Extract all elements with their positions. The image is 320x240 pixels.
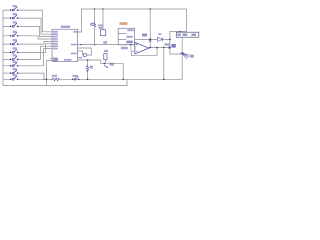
relay top pin (181, 31, 183, 34)
IC U1 label above (61, 26, 71, 28)
IC U1 body (52, 29, 77, 61)
switch SW5 (10, 41, 18, 45)
wire row10 / bottom analog rail (3, 78, 182, 80)
transistor Q1 (181, 53, 183, 55)
junction dot rail x103 (102, 8, 103, 9)
wire row5 (3, 41, 52, 44)
wire row6 (3, 44, 52, 53)
wire row9 (3, 73, 44, 79)
switch SW8 (10, 62, 18, 66)
box U2 middle (DAC) (118, 28, 134, 45)
U2 inner pin stubs (118, 34, 126, 40)
switch SW6 (10, 49, 18, 53)
wire XTAL nest 2 (78, 51, 84, 55)
junction dot row9 joins rail (43, 79, 44, 80)
switch SW3 (10, 23, 18, 27)
diode/resistor R-b on bottom rail (72, 76, 79, 80)
wire bottom border net (3, 79, 127, 85)
wire row4 (3, 36, 52, 39)
wire row8 (3, 49, 52, 66)
output arrow + flag (169, 46, 171, 49)
output down to rail (163, 48, 165, 80)
diode D1 (158, 37, 163, 41)
box2 bottom pin drop (130, 45, 132, 51)
orange script text (120, 22, 128, 25)
switch SW4 (10, 32, 18, 36)
wire left common bus (2, 10, 4, 86)
junction dot on rail (46, 79, 48, 81)
X1 labels above (98, 25, 103, 27)
X1 label below (103, 41, 107, 43)
crystal/box X1 top (102, 9, 104, 30)
output wire (149, 47, 170, 49)
wire row7 (3, 46, 52, 59)
op-amp label (127, 41, 133, 43)
relay/load box (176, 32, 199, 37)
resistor R pullup (box style) on x=94.6 (94, 9, 96, 45)
IC U1 right/bottom pin labels (53, 31, 82, 61)
resistor chain R-a on bottom rail (51, 78, 60, 81)
switch SW2 (10, 15, 18, 19)
vertical resistor R-c at x87.6 (78, 60, 124, 79)
rail dropper x150 (149, 9, 151, 48)
U2 right side labels (126, 29, 133, 43)
IC U1 pin9 stub (50, 57, 52, 59)
wire DAC output to op-amp + (78, 44, 135, 46)
capacitor/crystal blob (83, 54, 86, 57)
switch SW7 (10, 56, 18, 60)
switch SW1 (10, 7, 18, 11)
diode labels (158, 33, 161, 35)
relay bottom pin to transistor (181, 38, 183, 53)
wire relay top feed (170, 9, 187, 54)
wire row2 (3, 18, 52, 34)
feedback wire (131, 48, 157, 56)
wire XTAL nest 1 (78, 48, 92, 55)
junction dot rail x150 (149, 8, 151, 10)
potentiometer RV1 (104, 54, 107, 60)
wire IC right pin up to VCC rail (78, 9, 187, 32)
junction dot rail x94.6 (94, 8, 95, 9)
switch SW10 (10, 76, 18, 80)
diode D1 net wire (135, 38, 170, 40)
switch SW9 (10, 70, 18, 74)
IC U1 left pin name labels (53, 31, 58, 61)
wire row3 (3, 26, 52, 36)
op-amp U3 (135, 42, 149, 54)
U2 label below (121, 47, 128, 49)
relay inner text (177, 34, 196, 36)
IC U1 lower-left pin wire to ground border (47, 61, 53, 86)
wire row1 (3, 10, 52, 32)
